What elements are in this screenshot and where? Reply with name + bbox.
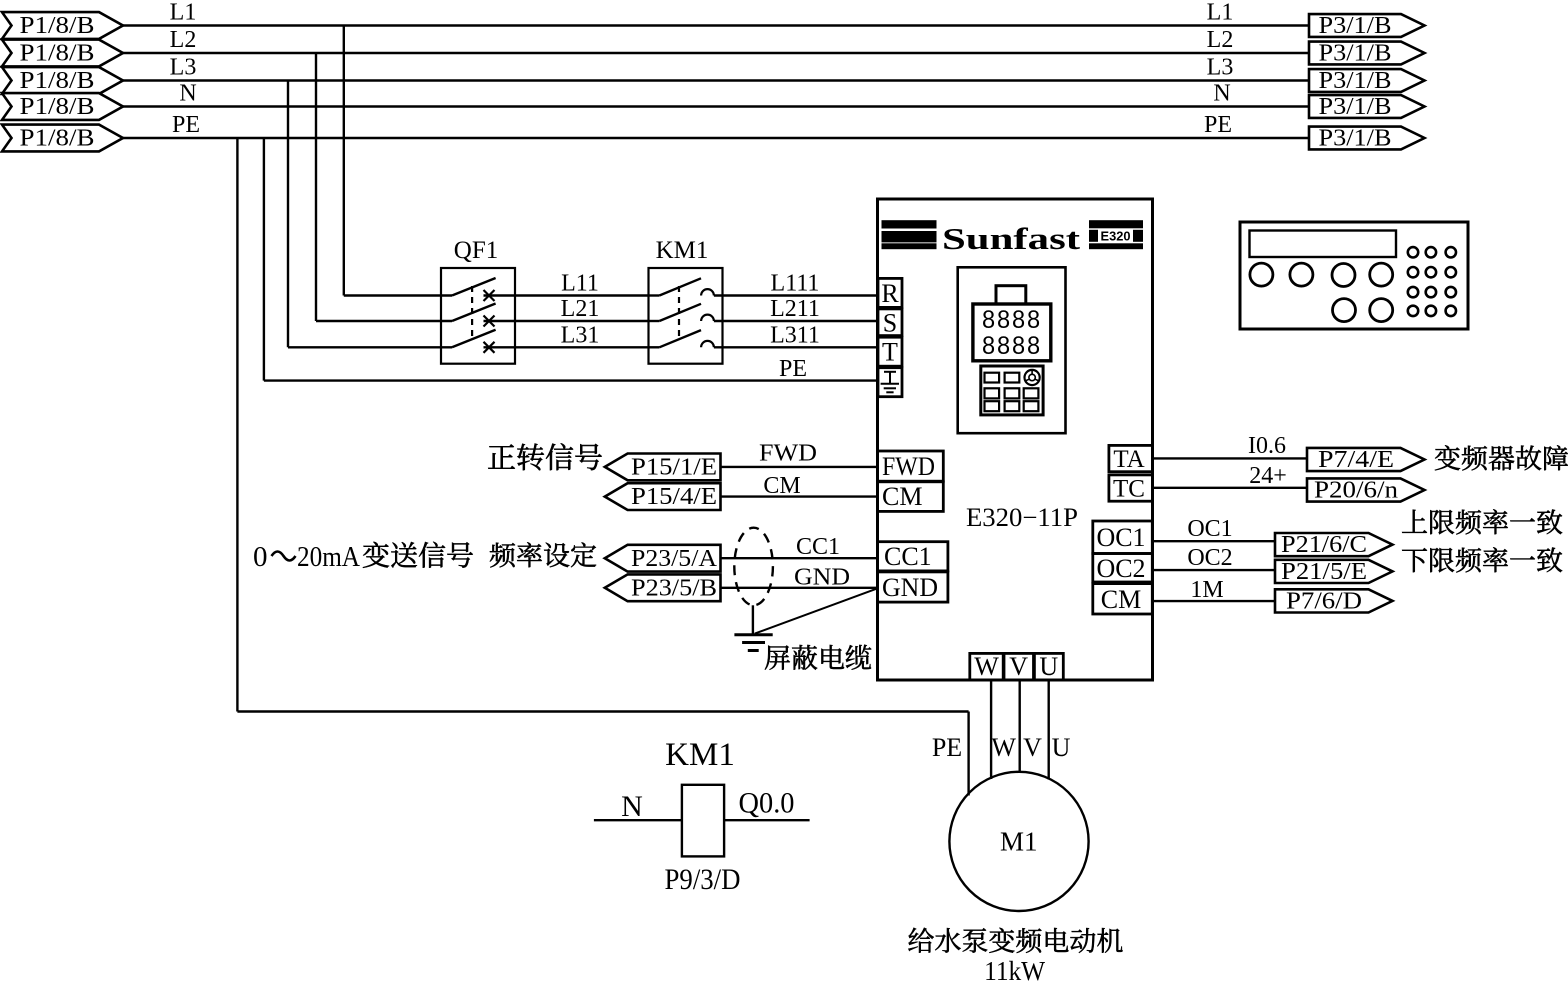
svg-text:W: W [974,652,999,681]
svg-text:PE: PE [172,112,200,138]
logo E320 badge [1089,220,1143,228]
label 频率设定 [490,543,515,568]
svg-text:TC: TC [1113,476,1145,503]
svg-text:TA: TA [1113,446,1144,473]
operator panel buttons (small) [1408,247,1418,257]
svg-text:PE: PE [932,733,962,762]
breaker QF1 pole 2 contact [452,304,496,322]
wire CM [721,495,879,497]
svg-text:L31: L31 [561,322,600,348]
keypad button panel [981,366,1043,415]
logo bars left [882,220,937,228]
svg-text:T: T [882,338,898,367]
terminal CM (left) [878,482,944,512]
svg-text:CM: CM [882,482,922,511]
svg-text:KM1: KM1 [656,237,709,264]
svg-text:P20/6/n: P20/6/n [1314,478,1398,504]
contactor KM1 linkage (dashed) [678,286,680,341]
svg-text:P3/1/B: P3/1/B [1319,41,1392,67]
connector flag P7/6/D [1275,589,1393,612]
connector flag P3/1/B (L2) [1309,42,1425,65]
svg-text:Sunfast: Sunfast [942,221,1081,256]
wire L211 [714,320,878,322]
svg-text:CC1: CC1 [796,534,840,560]
connector flag P1/8/B (L2) [2,40,123,67]
wire L11 [515,294,649,296]
label 屏蔽电缆 [765,645,790,669]
svg-text:L211: L211 [770,296,820,322]
coil KM1 box [682,785,724,857]
svg-text:CC1: CC1 [884,542,932,571]
svg-text:P21/5/E: P21/5/E [1281,559,1367,585]
connector flag P1/8/B (L1) [2,12,123,39]
wire L31 [515,346,649,348]
breaker QF1 linkage (dashed) [471,286,473,341]
terminal TC [1109,475,1153,501]
svg-text:PE: PE [1204,112,1232,138]
svg-text:KM1: KM1 [665,737,735,773]
svg-text:L311: L311 [770,322,820,348]
connector flag P21/6/C [1275,533,1393,556]
label 变频器故障 [1435,445,1460,470]
wire shield drop [752,605,754,634]
svg-text:P1/8/B: P1/8/B [20,94,95,120]
wire L2 tap to QF1 [315,53,317,321]
wire L311 [714,346,878,348]
svg-text:P3/1/B: P3/1/B [1319,13,1392,39]
svg-text:L21: L21 [561,296,600,322]
keypad outer frame [958,267,1066,433]
wire V to motor [1019,680,1021,772]
keypad keys [985,373,1000,383]
wire CC1 [721,557,879,559]
connector flag P21/5/E [1275,560,1393,583]
wire L1 tap to QF1 [343,26,345,296]
svg-text:N: N [1213,81,1230,107]
svg-text:CM: CM [1101,585,1141,614]
wire L1 bus [121,24,1310,26]
svg-text:L3: L3 [1207,55,1234,81]
svg-text:OC2: OC2 [1187,545,1232,571]
wire PE tap to inverter ground [263,138,265,381]
wire CM-1M [1152,600,1275,602]
svg-text:OC1: OC1 [1187,516,1232,542]
terminal T [878,337,902,366]
svg-text:OC2: OC2 [1096,554,1145,583]
wire L111 [714,294,878,296]
svg-text:E320: E320 [1101,230,1131,244]
connector flag P15/1/E [605,454,721,481]
ground (shield) [734,633,772,636]
terminal CC1 [878,542,948,571]
terminal U [1034,653,1063,680]
wire L21 [515,320,649,322]
svg-text:GND: GND [794,565,850,591]
wire FWD [721,466,879,468]
svg-text:L11: L11 [561,271,599,297]
keypad connector [996,286,1026,304]
terminal OC1 [1093,521,1153,554]
svg-text:N: N [179,81,196,107]
connector flag P3/1/B (N) [1309,95,1425,118]
terminal TA [1109,445,1153,471]
wire TC-24+ [1152,487,1307,489]
svg-text:P15/4/E: P15/4/E [631,484,717,510]
contactor KM1 pole 2 contact [649,320,660,322]
wire OC1 [1152,540,1275,542]
svg-text:L3: L3 [170,55,197,81]
wire OC2 [1152,569,1275,571]
terminal OC2 [1093,554,1153,583]
wire GND [721,587,879,589]
svg-text:I0.6: I0.6 [1248,433,1286,459]
svg-text:P15/1/E: P15/1/E [631,455,717,481]
svg-text:P1/8/B: P1/8/B [20,126,95,152]
svg-text:R: R [881,279,899,308]
connector flag P3/1/B (L3) [1309,69,1425,92]
svg-text:P23/5/B: P23/5/B [631,576,717,602]
terminal CM (right) [1093,584,1153,614]
svg-text:P3/1/B: P3/1/B [1319,94,1392,120]
label 正转信号 [488,444,515,468]
svg-text:M1: M1 [1000,827,1038,857]
wire W to motor [990,680,992,779]
wire L2 bus [121,52,1310,54]
svg-text:P1/8/B: P1/8/B [20,41,95,67]
svg-text:P21/6/C: P21/6/C [1281,532,1367,558]
connector flag P1/8/B (PE) [2,125,123,152]
svg-text:P9/3/D: P9/3/D [665,863,741,896]
svg-text:U: U [1052,733,1071,762]
breaker QF1 box [441,268,515,364]
connector flag P23/5/A [605,545,721,572]
wire N (coil) [594,819,682,821]
svg-text:S: S [883,308,897,337]
svg-text:GND: GND [882,573,938,602]
terminal FWD [878,451,944,481]
operator panel box [1240,222,1468,329]
svg-text:P3/1/B: P3/1/B [1319,126,1392,152]
wire TA-I0.6 [1152,457,1307,459]
svg-text:N: N [621,790,643,823]
svg-text:24+: 24+ [1249,463,1287,489]
wire U to motor [1047,680,1049,780]
wire shield diagonal [755,588,878,633]
keypad display box [973,304,1051,361]
connector flag P3/1/B (L1) [1309,14,1425,37]
connector flag P23/5/B [605,574,721,601]
keypad knob [1025,370,1040,385]
wire N bus [121,105,1310,107]
svg-text:OC1: OC1 [1096,523,1145,552]
connector flag P1/8/B (L3) [2,67,123,94]
label 下限频率一致 [1402,548,1427,572]
svg-text:P7/6/D: P7/6/D [1286,589,1362,615]
breaker QF1 pole 3 contact [452,330,496,348]
terminal PE (ground symbol) [878,368,902,397]
svg-text:P1/8/B: P1/8/B [20,68,95,94]
label 上限频率一致 [1402,510,1427,533]
wire Q0.0 (coil) [724,819,810,821]
connector flag P20/6/n [1307,478,1425,501]
wire PE tap to motor [236,138,238,712]
svg-text:P23/5/A: P23/5/A [631,546,718,572]
svg-text:P1/8/B: P1/8/B [20,13,95,39]
svg-text:PE: PE [779,356,807,382]
svg-text:0: 0 [253,541,268,573]
svg-text:V: V [1009,652,1028,681]
terminal S [878,309,902,336]
svg-text:P3/1/B: P3/1/B [1319,68,1392,94]
svg-text:L1: L1 [170,0,197,26]
operator panel display [1250,231,1397,258]
svg-text:Q0.0: Q0.0 [739,787,795,820]
label 给水泵变频电动机 [908,928,933,953]
svg-text:8888: 8888 [982,332,1042,360]
connector flag P7/4/E [1307,448,1425,471]
contactor KM1 pole 3 contact [649,346,660,348]
svg-text:E320−11P: E320−11P [966,503,1078,532]
wire L3 bus [121,79,1310,81]
contactor KM1 box [649,268,723,364]
connector flag P15/4/E [605,483,721,510]
svg-text:V: V [1023,733,1042,762]
motor M1 circle [949,772,1088,911]
connector flag P3/1/B (PE) [1309,127,1425,150]
svg-text:QF1: QF1 [454,237,498,264]
svg-text:L2: L2 [170,27,197,53]
connector flag P1/8/B (N) [2,93,123,120]
svg-text:FWD: FWD [759,441,817,467]
contactor KM1 pole 1 contact [649,294,660,296]
svg-text:U: U [1039,652,1058,681]
wire PE bus [121,137,1310,139]
terminal V [1004,653,1034,680]
svg-text:1M: 1M [1190,577,1223,603]
svg-text:L1: L1 [1207,0,1234,26]
inverter E320 box [878,199,1153,680]
terminal R [878,278,902,307]
svg-text:P7/4/E: P7/4/E [1318,447,1394,473]
svg-text:8888: 8888 [982,306,1042,334]
svg-text:L111: L111 [771,271,820,297]
wire L3 tap to QF1 [287,81,289,348]
svg-text:11kW: 11kW [984,956,1045,982]
operator panel buttons (large) [1250,263,1273,286]
svg-text:L2: L2 [1207,27,1234,53]
terminal W [970,653,1003,680]
svg-text:FWD: FWD [882,452,935,481]
shielded-cable ellipse [734,528,773,606]
svg-text:20mA: 20mA [297,541,360,573]
breaker QF1 pole 1 contact [452,278,496,296]
svg-text:CM: CM [763,473,800,499]
terminal GND [878,572,948,602]
svg-text:W: W [991,733,1016,762]
